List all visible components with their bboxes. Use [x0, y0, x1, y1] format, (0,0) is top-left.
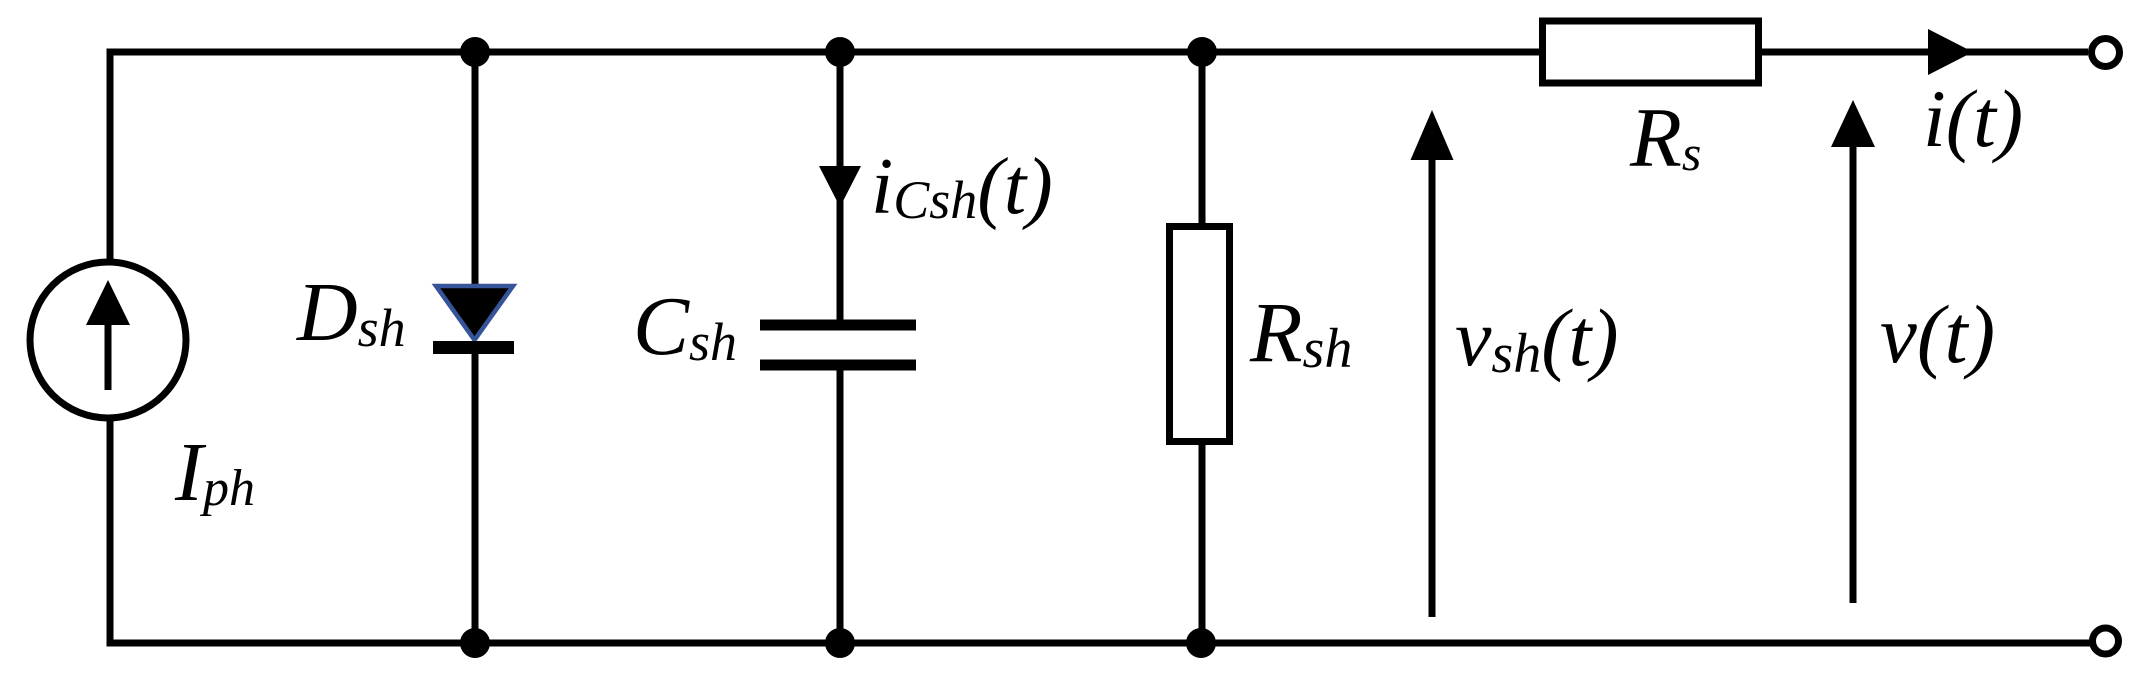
wire: top bus from left corner to output terminal — [110, 49, 2088, 56]
resistor Rsh — [1170, 227, 1230, 442]
svg-text:i(t): i(t) — [1923, 73, 2023, 164]
voltage arrow vsh(t): shaft — [1429, 150, 1436, 617]
voltage arrow v(t): arrowhead — [1831, 100, 1875, 147]
diode Dsh: cathode bar — [433, 341, 514, 354]
current arrow iCsh(t) on capacitor branch — [819, 166, 861, 207]
resistor Rs — [1543, 21, 1759, 83]
voltage arrow v(t): shaft — [1850, 140, 1857, 603]
current source Iph: circle — [30, 262, 186, 418]
current direction arrow i(t) on top bus — [1928, 29, 1973, 75]
voltage arrow vsh(t): arrowhead — [1411, 110, 1454, 160]
junction node: bottom diode — [460, 628, 490, 658]
capacitor Csh: top plate — [760, 320, 916, 331]
wire: capacitor branch upper segment — [837, 52, 844, 320]
wire: left vertical segment below current source — [107, 420, 114, 647]
wire: left vertical segment above current source — [107, 49, 114, 263]
junction node: top Rsh — [1187, 37, 1217, 67]
diode Dsh: triangle (blue outline, black fill) — [436, 286, 513, 340]
capacitor Csh: bottom plate — [760, 360, 916, 371]
current source Iph: arrowhead — [86, 280, 130, 325]
wire: capacitor branch lower segment — [837, 370, 844, 643]
wire: diode branch lower segment — [472, 350, 479, 643]
wire: diode branch upper segment — [472, 52, 479, 285]
wire: Rsh branch lower segment — [1199, 442, 1206, 643]
svg-text:v(t): v(t) — [1880, 288, 1995, 380]
junction node: top diode — [460, 37, 490, 67]
terminal: bottom output circle — [2093, 628, 2119, 654]
current source Iph: arrow shaft — [105, 320, 112, 390]
junction node: top capacitor — [825, 37, 855, 67]
terminal: top output circle — [2092, 39, 2120, 67]
junction node: bottom Rsh — [1186, 628, 1216, 658]
junction node: bottom capacitor — [825, 628, 855, 658]
wire: Rsh branch upper segment — [1199, 52, 1206, 226]
wire: bottom bus from left corner to output terminal — [110, 640, 2090, 647]
